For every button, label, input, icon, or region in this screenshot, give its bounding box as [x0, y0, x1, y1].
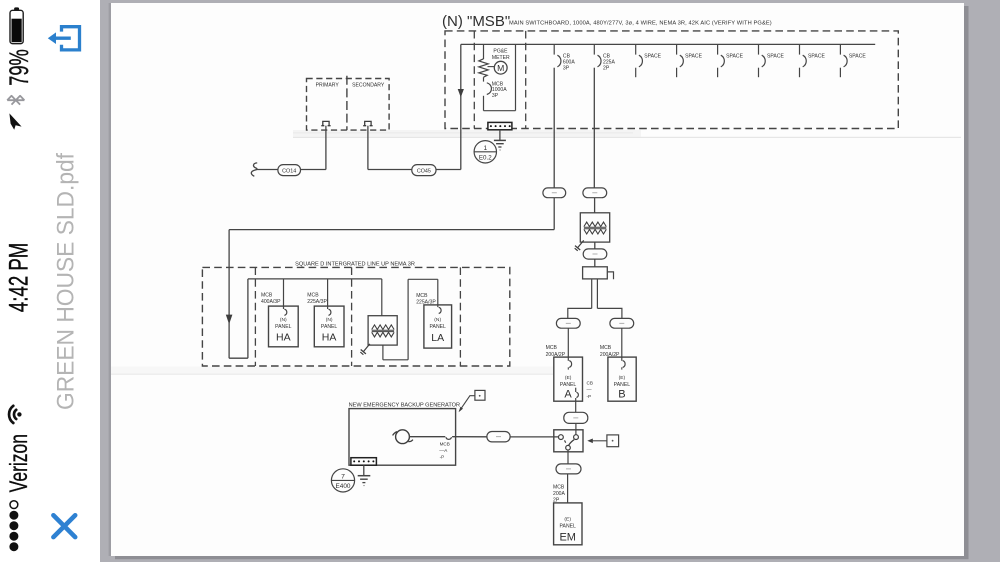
feeder riser wire — [247, 279, 249, 358]
wire horizontal to LA riser — [383, 359, 408, 361]
svg-text:E0.2: E0.2 — [479, 154, 492, 161]
svg-text:PG&E: PG&E — [493, 49, 508, 55]
svg-text:PANEL: PANEL — [275, 324, 291, 330]
lineup bus wire — [248, 278, 382, 280]
keynote tag at ATS — [607, 435, 619, 447]
continuation squiggle — [251, 163, 257, 176]
conduit tag on CB225 feeder — [583, 188, 607, 198]
lineup divider 1 — [254, 267, 256, 366]
meter section right riser wire — [515, 44, 517, 110]
svg-text:1: 1 — [483, 145, 487, 152]
svg-text:(E): (E) — [565, 375, 572, 381]
svg-text:200A: 200A — [553, 491, 565, 497]
svg-text:MCB: MCB — [440, 441, 450, 446]
wifi icon — [9, 406, 22, 423]
svg-text:225A/3P: 225A/3P — [307, 299, 327, 305]
LA bus segment wire — [408, 278, 438, 280]
ATS terminal bottom — [566, 445, 571, 450]
svg-text:MCB: MCB — [307, 293, 319, 299]
svg-text:(N) "MSB": (N) "MSB" — [442, 13, 510, 30]
ATS terminal right — [574, 435, 579, 440]
main bus wire — [461, 43, 875, 45]
svg-text:(E): (E) — [564, 517, 571, 523]
breaker arc HA1 — [284, 309, 286, 315]
fold-line artifact upper — [293, 130, 641, 137]
feeder wire CB600 down to tag — [553, 68, 555, 188]
panel HA1 — [269, 306, 299, 347]
lineup transformer box — [368, 316, 397, 345]
svg-text:SPACE: SPACE — [808, 53, 825, 59]
distribution section box — [583, 267, 608, 279]
svg-text:-P: -P — [440, 454, 445, 459]
breaker arc panel A — [569, 361, 571, 368]
generator rotation ticks — [393, 432, 398, 436]
transformer T1 ground tail — [578, 240, 584, 247]
lineup divider 2 — [351, 267, 353, 366]
svg-text:METER: METER — [492, 55, 510, 61]
generator terminal strip — [351, 458, 377, 466]
wire tag to transformer T1 — [594, 198, 596, 213]
location arrow icon — [9, 113, 21, 129]
svg-text:2P: 2P — [603, 66, 610, 72]
svg-text:––A: ––A — [439, 448, 448, 453]
MSB internal divider 1 — [473, 31, 475, 129]
wire zigzag to breaker — [483, 77, 485, 81]
lineup divider 3 — [459, 267, 461, 366]
page shadow — [964, 6, 969, 558]
MSB enclosure (dashed) — [445, 31, 898, 129]
wire strip to ground — [363, 465, 365, 475]
svg-text:CO14: CO14 — [282, 168, 296, 174]
MSB internal divider 2 — [525, 31, 527, 129]
svg-text:PANEL: PANEL — [560, 523, 576, 529]
wire secondary horizontal to CO45 and MSB feeder — [368, 169, 461, 171]
conduit tag CO45 — [412, 165, 436, 176]
conduit tag generator feeder — [487, 432, 510, 442]
generator ground symbol — [358, 475, 371, 477]
svg-text:3P: 3P — [492, 93, 499, 99]
wire breaker to bottom — [483, 96, 485, 111]
svg-text:SPACE: SPACE — [849, 53, 866, 59]
svg-text:-P: -P — [587, 394, 592, 399]
generator enclosure — [349, 409, 456, 466]
feeder direction arrow — [458, 89, 464, 97]
conduit tag on CB600 feeder — [543, 188, 566, 198]
sidebar white background — [0, 0, 100, 562]
split wire left — [568, 308, 592, 318]
ATS blade — [569, 440, 575, 446]
svg-text:CB: CB — [587, 381, 593, 386]
wire generator to breaker — [409, 436, 445, 438]
spare breaker SPACE 6 — [840, 44, 866, 77]
panel LA — [424, 305, 452, 348]
ATS terminal left — [559, 435, 564, 440]
conduit tag CO14 — [278, 165, 301, 176]
svg-text:HA: HA — [276, 332, 291, 344]
svg-text:MCB: MCB — [261, 293, 273, 299]
panel B — [608, 357, 636, 401]
svg-text:––: –– — [587, 387, 593, 392]
wire secondary down — [367, 126, 369, 170]
side stub on distribution box — [607, 272, 613, 279]
svg-text:79%: 79% — [4, 49, 34, 86]
svg-text:E400: E400 — [336, 483, 351, 490]
keynote leader to generator — [460, 396, 475, 411]
ground symbol — [494, 139, 506, 141]
lineup transformer windings — [372, 325, 394, 330]
panel EM — [554, 503, 582, 545]
svg-text:M: M — [497, 63, 504, 73]
spare breaker SPACE 3 — [718, 44, 744, 77]
svg-text:PANEL: PANEL — [560, 382, 576, 388]
feeder wire CB225 down to tag — [593, 68, 595, 188]
wire tag to panel EM — [567, 474, 569, 503]
wire tag to distribution section — [594, 259, 596, 267]
svg-text:A: A — [564, 389, 572, 401]
svg-text:MCB: MCB — [553, 484, 565, 490]
breaker MCB 1000A 3P arc — [487, 83, 492, 95]
wire transformer secondary down — [382, 345, 384, 360]
lineup enclosure (dashed) — [202, 267, 509, 366]
keynote tag at generator — [475, 390, 485, 400]
conduit tag below T1 — [583, 249, 607, 259]
conduit tag feeder B — [610, 318, 634, 328]
svg-text:SPACE: SPACE — [726, 53, 743, 59]
svg-text:LA: LA — [431, 332, 444, 344]
wire primary horizontal to CO14 — [256, 169, 326, 171]
transformer T1 windings — [584, 222, 606, 227]
wire down to panel LA — [437, 279, 439, 307]
breaker CB 600A 3P — [554, 44, 575, 71]
conduit tag above EM — [556, 464, 581, 474]
feeder U-turn bottom wire — [229, 357, 248, 359]
wire breaker out of generator to tag — [452, 436, 487, 438]
wire ATS bottom down — [567, 450, 569, 464]
feeder wire down into Square D — [228, 230, 230, 359]
svg-text:4:42 PM: 4:42 PM — [3, 243, 33, 312]
secondary bushing stub — [363, 121, 372, 125]
svg-text:MCB: MCB — [416, 293, 428, 299]
svg-text:B: B — [618, 389, 625, 401]
generator breaker arc MCB — [446, 437, 452, 439]
svg-text:(N): (N) — [434, 317, 441, 323]
svg-text:(E): (E) — [619, 375, 626, 381]
spare breaker SPACE 4 — [759, 44, 785, 77]
CT zigzag — [479, 59, 488, 77]
transformer T1 box — [580, 213, 609, 242]
sheet reference bubble 7/E400 — [331, 469, 354, 492]
panel HA2 — [314, 306, 344, 347]
meter section bottom wire — [484, 110, 516, 112]
bluetooth icon — [7, 96, 24, 105]
keynote arrow to ATS — [592, 440, 607, 442]
close (X) icon (blue) — [53, 515, 75, 537]
svg-text:GREEN HOUSE SLD.pdf: GREEN HOUSE SLD.pdf — [52, 153, 79, 411]
meter connector stub — [488, 66, 495, 68]
signal dots (4 filled 1 empty) — [9, 501, 18, 552]
wire bus to lineup transformer — [381, 279, 383, 316]
neutral/ground terminal strip — [488, 122, 512, 129]
transformer divider — [346, 76, 348, 130]
svg-text:PRIMARY: PRIMARY — [316, 82, 340, 88]
breaker arc panel B — [623, 361, 625, 368]
svg-text:PANEL: PANEL — [614, 382, 630, 388]
svg-text:(N): (N) — [326, 317, 333, 323]
feeder wire CB600 tag to corner — [553, 198, 555, 230]
svg-text:EM: EM — [559, 531, 576, 543]
svg-text:7: 7 — [341, 473, 345, 480]
split wire right — [597, 308, 622, 318]
spare breaker SPACE 1 — [636, 44, 662, 77]
breaker arc LA — [439, 307, 441, 313]
wire tag to ATS left terminal — [510, 436, 558, 438]
wire T1 to tag — [594, 242, 596, 249]
svg-text:MCB: MCB — [600, 345, 612, 351]
meter circle M — [494, 61, 507, 74]
spare breaker SPACE 5 — [800, 44, 826, 77]
svg-text:MAIN SWITCHBOARD, 1000A, 480: MAIN SWITCHBOARD, 1000A, 480Y/277V, 3ø, … — [509, 20, 772, 26]
wire strip to ground — [499, 130, 501, 140]
generator circle G — [396, 430, 410, 444]
service feeder wire down from bus — [460, 44, 462, 169]
conduit tag above ATS — [564, 412, 588, 423]
lineup transformer ground tail — [363, 344, 369, 352]
wire tag to ATS — [575, 423, 577, 434]
svg-text:MCB: MCB — [546, 345, 558, 351]
sheet reference bubble 1/E0.2 — [474, 141, 496, 163]
wire panel A bottom to tag — [575, 398, 577, 412]
panel A — [554, 357, 583, 401]
feeder direction arrow — [226, 315, 233, 325]
svg-text:NEW EMERGENCY BACKUP GENERATOR: NEW EMERGENCY BACKUP GENERATOR — [349, 402, 460, 408]
svg-text:SPACE: SPACE — [767, 53, 784, 59]
svg-text:CO45: CO45 — [417, 168, 431, 174]
utility transformer enclosure (dashed) — [307, 79, 390, 131]
svg-text:HA: HA — [322, 332, 337, 344]
wire bus to panel HA2 — [327, 279, 329, 309]
svg-text:PANEL: PANEL — [430, 324, 446, 330]
twin riser wires down — [591, 279, 593, 309]
conduit tag feeder A — [556, 318, 580, 328]
LA riser wire up — [407, 279, 409, 360]
svg-text:SPACE: SPACE — [685, 53, 702, 59]
breaker CB 225A 2P — [594, 44, 615, 71]
battery icon — [10, 7, 23, 43]
svg-text:Verizon: Verizon — [4, 434, 33, 492]
primary bushing stub — [321, 121, 330, 125]
wire bus to panel HA1 — [283, 279, 285, 309]
breaker arc HA2 — [329, 309, 331, 315]
svg-text:SPACE: SPACE — [644, 53, 661, 59]
wire tag to panel A — [567, 328, 569, 361]
PG&E meter section: left riser wire — [483, 44, 485, 59]
wire tag to panel B — [621, 328, 623, 361]
feeder wire horizontal to Square D — [229, 229, 554, 231]
wire primary down — [325, 126, 327, 170]
svg-text:PANEL: PANEL — [321, 324, 337, 330]
svg-text:3P: 3P — [563, 66, 570, 72]
export/share icon (blue) — [54, 27, 80, 50]
svg-text:SECONDARY: SECONDARY — [352, 82, 385, 88]
svg-text:400A/3P: 400A/3P — [261, 299, 281, 305]
sub breaker CB in panel A — [575, 388, 577, 392]
transfer switch box — [554, 430, 583, 452]
svg-text:(N): (N) — [280, 317, 287, 323]
fold-line artifact lower — [111, 366, 553, 374]
spare breaker SPACE 2 — [677, 44, 703, 77]
